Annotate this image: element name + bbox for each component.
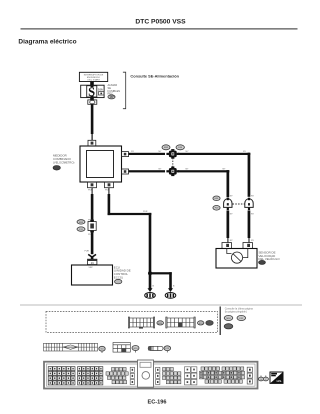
svg-text:NY: NY	[159, 151, 163, 153]
svg-text:NY: NY	[186, 168, 190, 170]
svg-text:EC-196: EC-196	[148, 399, 167, 405]
svg-text:COMBINADO: COMBINADO	[53, 157, 72, 161]
svg-text:NY: NY	[159, 168, 163, 170]
svg-text:10A: 10A	[98, 87, 103, 91]
svg-text:NY: NY	[223, 168, 227, 170]
svg-text:NY: NY	[230, 240, 234, 242]
svg-text:PUR: PUR	[143, 211, 148, 213]
svg-text:Consulte SE-Alimentación: Consulte SE-Alimentación	[130, 74, 179, 79]
svg-text:B: B	[173, 286, 175, 288]
svg-text:NY: NY	[251, 240, 255, 242]
svg-text:ECCS): ECCS)	[114, 275, 123, 279]
svg-text:PUR: PUR	[85, 251, 90, 253]
svg-text:Diagrama eléctrico: Diagrama eléctrico	[18, 39, 76, 46]
svg-text:NY: NY	[251, 214, 255, 216]
svg-text:NY: NY	[186, 151, 190, 153]
svg-text:(la página plegable): (la página plegable)	[225, 310, 247, 313]
svg-text:NY: NY	[251, 196, 255, 198]
svg-text:B: B	[153, 286, 155, 288]
svg-text:H.S.: H.S.	[277, 379, 282, 383]
svg-text:ON o START: ON o START	[87, 79, 100, 82]
svg-text:DTC P0500 VSS: DTC P0500 VSS	[135, 19, 186, 26]
svg-text:NY: NY	[230, 196, 234, 198]
svg-text:NY: NY	[243, 151, 247, 153]
svg-text:NY: NY	[230, 214, 234, 216]
svg-text:VSP: VSP	[89, 267, 94, 269]
svg-text:NY: NY	[131, 151, 135, 153]
svg-text:(VELOCÍMETRO): (VELOCÍMETRO)	[53, 160, 74, 164]
